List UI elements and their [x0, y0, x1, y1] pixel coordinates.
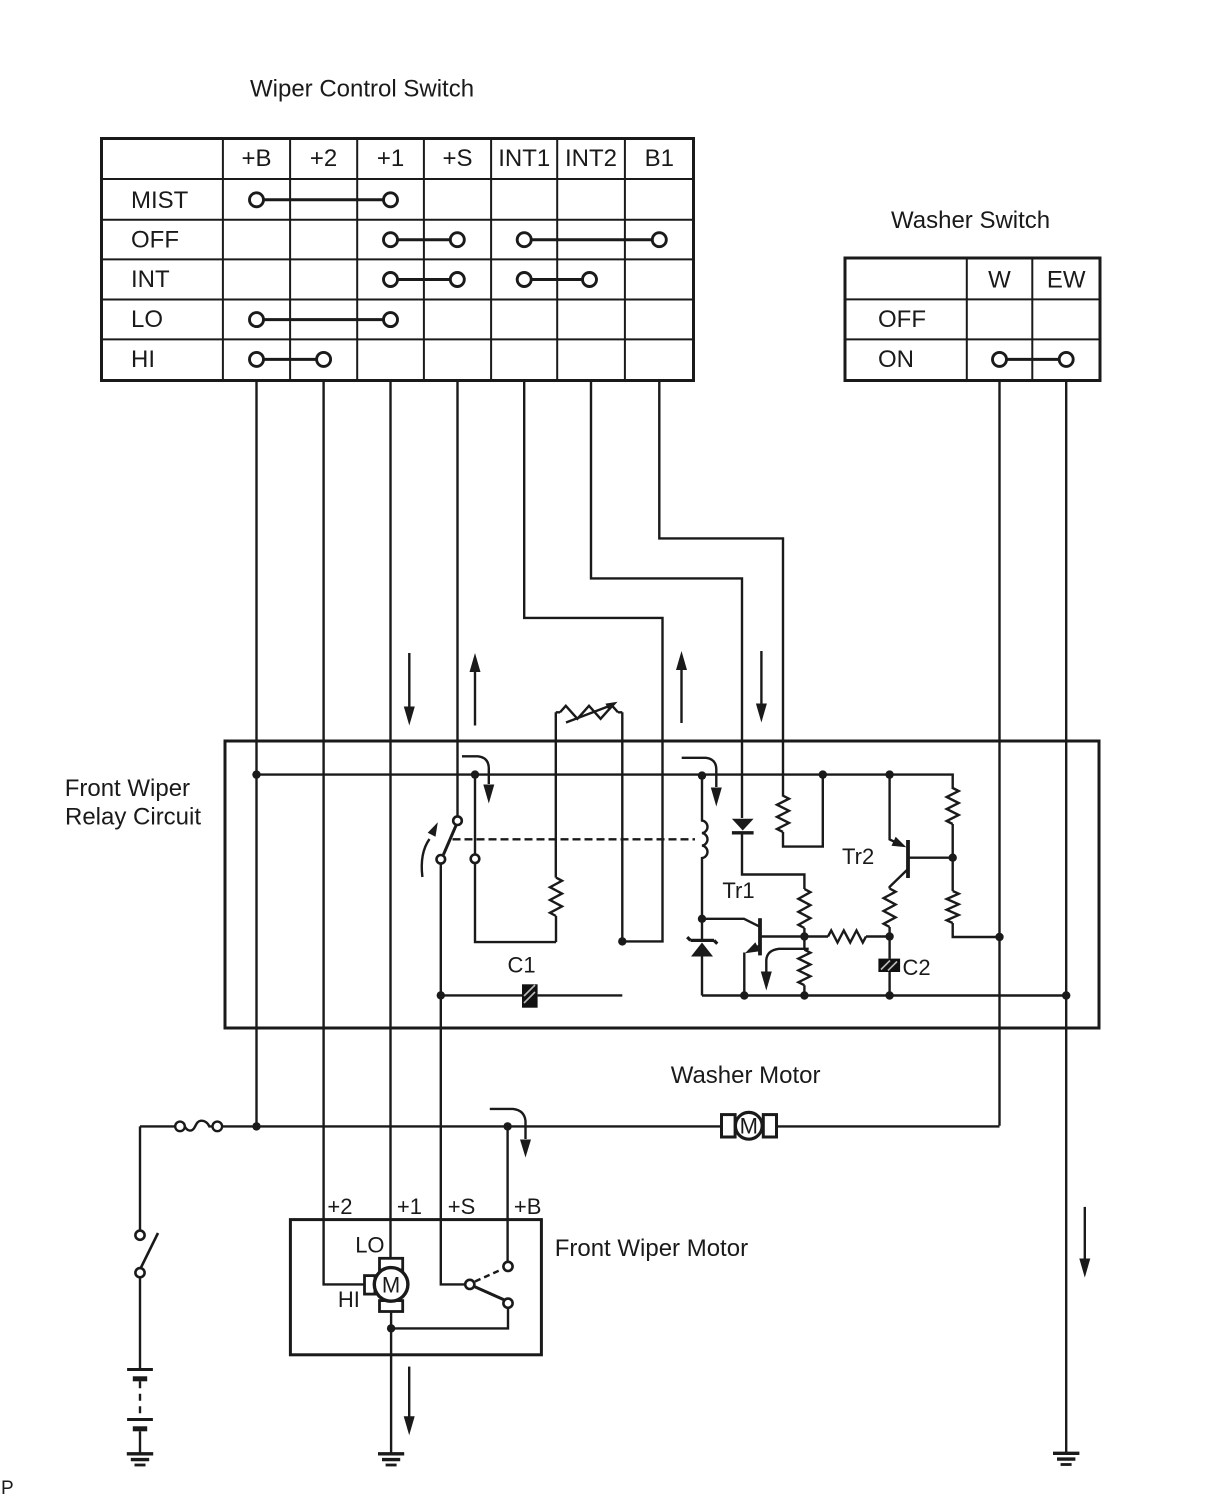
svg-text:MIST: MIST — [131, 187, 189, 214]
INT row contacts +1 to +S — [384, 273, 465, 287]
resistor R2 (B1 to rail) — [777, 776, 823, 847]
flow arrow curved at wiper motor +B branch — [490, 1109, 531, 1158]
relay +B rail wire — [257, 775, 953, 789]
wiper table column header labels — [241, 145, 673, 172]
svg-text:Relay Circuit: Relay Circuit — [65, 804, 201, 831]
flow arrow curved at Tr1 emitter — [761, 949, 809, 991]
wire +S from table to relay contact — [456, 381, 458, 817]
wire EW from washer switch to ground — [1065, 381, 1067, 1453]
svg-text:INT1: INT1 — [498, 145, 550, 172]
svg-text:+2: +2 — [310, 145, 337, 172]
relay switch common contact (from +S) — [453, 816, 462, 825]
ground (battery) — [127, 1454, 153, 1465]
wire INT1 from table into relay — [524, 381, 662, 942]
wire +1 from table to wiper motor — [389, 381, 391, 1260]
svg-text:+B: +B — [241, 145, 271, 172]
relay ground rail wire — [702, 994, 1066, 996]
relay switch right contact — [471, 855, 480, 864]
wire lower contact to motor bottom — [391, 1308, 508, 1329]
ground (EW washer) — [1053, 1453, 1079, 1464]
ignition switch top contact — [135, 1231, 144, 1240]
resistor R4 (Tr2 collector) — [884, 889, 896, 959]
wiper motor terminal labels — [327, 1194, 541, 1219]
svg-text:+S: +S — [448, 1194, 476, 1219]
flow arrow down beside INT2 wire — [756, 651, 767, 723]
HI row contacts +B to +2 — [250, 352, 331, 366]
ignition switch blade — [141, 1233, 159, 1269]
capacitor C1 — [441, 984, 623, 1007]
svg-text:W: W — [988, 267, 1011, 294]
svg-text:C1: C1 — [508, 953, 536, 978]
resistor R3 (under diode) — [798, 889, 810, 937]
wire +B down into motor box — [506, 1126, 508, 1261]
svg-text:+2: +2 — [327, 1194, 352, 1219]
wire W from washer switch to washer motor — [998, 381, 1000, 1126]
svg-text:Washer Motor: Washer Motor — [671, 1062, 821, 1089]
capacitor C2 — [878, 959, 900, 996]
resistor R5 (rail to Tr2 base) — [947, 788, 959, 858]
washer table header labels W EW — [988, 267, 1086, 294]
wire switch to battery — [139, 1277, 141, 1369]
battery — [127, 1370, 153, 1453]
transistor Tr1 — [702, 918, 804, 995]
relay switch left contact to wiper motor +S — [437, 855, 446, 864]
wiper motor M with brushes — [365, 1258, 408, 1311]
label Front Wiper Relay Circuit — [65, 775, 202, 831]
svg-text:INT2: INT2 — [565, 145, 617, 172]
washer ON row contacts W to EW — [993, 352, 1074, 366]
svg-text:HI: HI — [131, 346, 155, 373]
OFF row contacts INT1 to B1 — [517, 233, 666, 247]
flow arrow curved at relay coil junction — [682, 758, 722, 807]
wire rail to right contact and down to R1 bottom — [475, 775, 556, 943]
svg-text:M: M — [740, 1114, 758, 1139]
svg-text:ON: ON — [878, 346, 914, 373]
wire +B from table to feed line — [255, 381, 257, 1127]
svg-text:Front Wiper Motor: Front Wiper Motor — [555, 1235, 748, 1262]
svg-text:Tr2: Tr2 — [842, 844, 874, 869]
wire feed line down to ignition switch and battery — [139, 1126, 141, 1230]
wire B1 from table to relay resistor — [659, 381, 783, 797]
svg-text:+B: +B — [514, 1194, 542, 1219]
ignition switch bottom contact — [135, 1268, 144, 1277]
svg-text:+1: +1 — [377, 145, 404, 172]
resistor R6 (Tr2 base to W wire) — [947, 858, 1000, 937]
svg-text:HI: HI — [338, 1287, 360, 1312]
OFF row contacts +1 to +S — [384, 233, 465, 247]
wire from left contact down to wiper motor +S terminal — [441, 864, 466, 1284]
svg-text:OFF: OFF — [878, 306, 926, 333]
relay coil — [702, 778, 708, 919]
washer table row labels — [878, 306, 926, 373]
relay switch movable arm — [444, 826, 457, 855]
main feed wire with fuse — [140, 1125, 1000, 1127]
wire motor bottom to ground — [390, 1312, 392, 1454]
wiper control switch table grid — [102, 139, 694, 381]
flow arrow down at wiper motor ground — [404, 1367, 415, 1436]
park switch dashed alternate blade — [475, 1270, 502, 1282]
svg-text:+1: +1 — [397, 1194, 422, 1219]
washer motor M — [722, 1112, 777, 1139]
variable resistor VR (intermittent time) — [556, 702, 623, 942]
diode D1 (on INT2 line) — [732, 819, 805, 889]
MIST row contacts +B to +1 — [250, 193, 398, 207]
transistor Tr2 — [890, 775, 953, 889]
svg-text:LO: LO — [355, 1233, 384, 1258]
resistor R1 (relay timing) — [550, 712, 562, 942]
flow arrow up beside INT1 wire — [676, 651, 687, 723]
svg-text:LO: LO — [131, 306, 163, 333]
svg-text:Tr1: Tr1 — [722, 878, 754, 903]
washer switch table grid — [845, 258, 1100, 381]
zener diode ZD — [687, 919, 717, 996]
svg-text:M: M — [382, 1273, 400, 1298]
svg-text:Washer Switch: Washer Switch — [891, 207, 1050, 234]
svg-text:INT: INT — [131, 266, 170, 293]
park switch common contact — [465, 1280, 474, 1289]
wire INT2 from table to relay diode — [591, 381, 742, 819]
ground (wiper motor) — [378, 1454, 404, 1465]
svg-text:B1: B1 — [645, 145, 674, 172]
dashed link from arm to relay coil — [453, 838, 696, 840]
resistor R7 (horizontal, Tr1 base) — [804, 931, 889, 943]
wire +2 from table to wiper motor — [324, 381, 366, 1285]
svg-text:Front Wiper: Front Wiper — [65, 775, 190, 802]
wiper table row labels — [131, 187, 189, 373]
svg-text:OFF: OFF — [131, 227, 179, 254]
svg-text:EW: EW — [1047, 267, 1086, 294]
svg-text:C2: C2 — [903, 955, 931, 980]
flow arrow up beside +S wire — [470, 653, 481, 726]
park switch blade — [474, 1287, 504, 1301]
INT row contacts INT1 to INT2 — [517, 273, 596, 287]
flow arrow down beside +1 wire — [404, 653, 415, 726]
svg-text:Wiper Control Switch: Wiper Control Switch — [250, 76, 474, 103]
flow arrow curved at right contact junction — [462, 756, 494, 803]
svg-text:+S: +S — [442, 145, 472, 172]
flow arrow down beside EW wire — [1079, 1207, 1090, 1278]
LO row contacts +B to +1 — [250, 313, 398, 327]
resistor R8 (Tr1 base to ground) — [798, 937, 810, 996]
fuse — [175, 1121, 222, 1131]
park switch fixed contact (+B) — [503, 1262, 512, 1271]
front wiper motor box — [290, 1220, 541, 1355]
front wiper relay circuit box — [225, 741, 1099, 1028]
relay switch motion arrow — [422, 839, 430, 877]
park switch lower contact — [503, 1299, 512, 1308]
svg-text:P: P — [1, 1478, 14, 1498]
